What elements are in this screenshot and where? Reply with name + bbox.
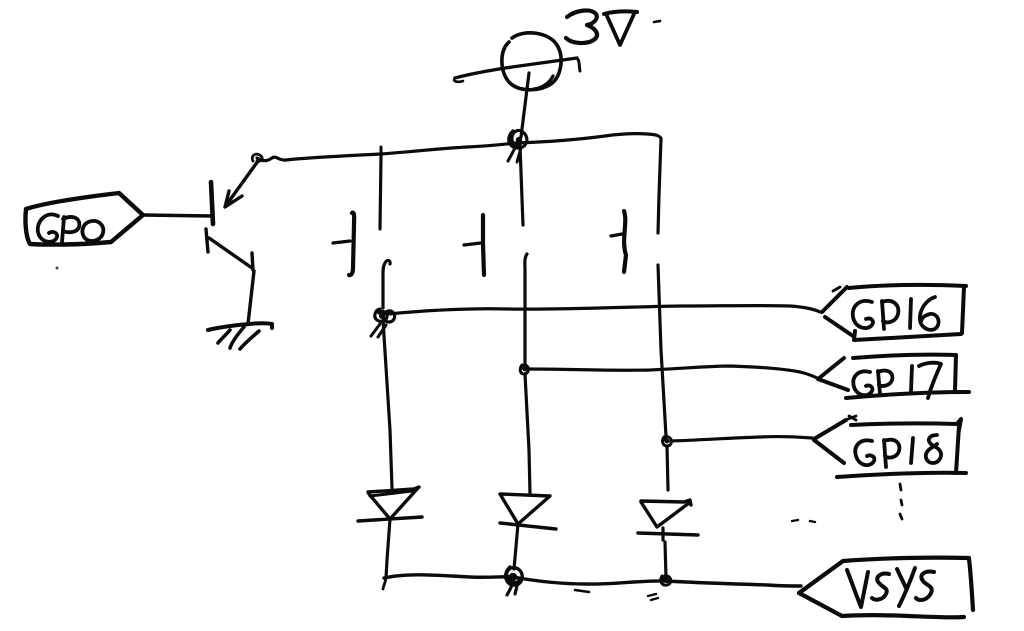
wire branch1 top <box>380 147 381 229</box>
transistor Q3 <box>464 215 484 275</box>
wire GP17 <box>529 366 817 378</box>
wire branch2 lower <box>525 374 530 494</box>
junction node GP17 <box>520 365 528 374</box>
transistor Q4 <box>611 211 626 272</box>
wire branch3 mid <box>658 265 666 436</box>
wire bottom rail VSYS <box>384 575 801 592</box>
junction node VSYS branch2 <box>506 567 523 595</box>
wire branch1 mid <box>383 260 390 308</box>
wire GP0 to Q1 base <box>143 215 211 216</box>
node GP18 flag <box>792 416 966 522</box>
wire GP16 <box>388 306 820 314</box>
wire branch2 top <box>520 146 523 225</box>
wire branch3 lower <box>667 446 668 490</box>
wire branch3 top <box>658 139 661 233</box>
diode D2 <box>500 494 556 569</box>
diode D1 <box>358 487 422 589</box>
node GP17 flag <box>818 355 969 398</box>
ground <box>208 323 272 349</box>
power source 3V <box>454 33 580 137</box>
node GP0 <box>25 193 143 245</box>
wire branch1 lower <box>383 320 392 488</box>
junction node GP18 <box>663 437 672 446</box>
node VSYS flag <box>799 558 973 618</box>
value label 3V <box>566 10 660 45</box>
transistor Q2 <box>333 213 354 276</box>
wire top rail <box>252 134 661 162</box>
node GP16 flag <box>822 285 966 340</box>
wire branch2 mid <box>525 254 527 364</box>
transistor Q1 <box>206 161 258 324</box>
junction node 3V rail <box>508 130 527 162</box>
diode D3 <box>638 500 698 578</box>
misc dot <box>56 267 59 270</box>
junction node VSYS branch3 <box>648 576 671 600</box>
wire GP18 <box>671 437 812 441</box>
junction node GP16 <box>371 309 395 337</box>
